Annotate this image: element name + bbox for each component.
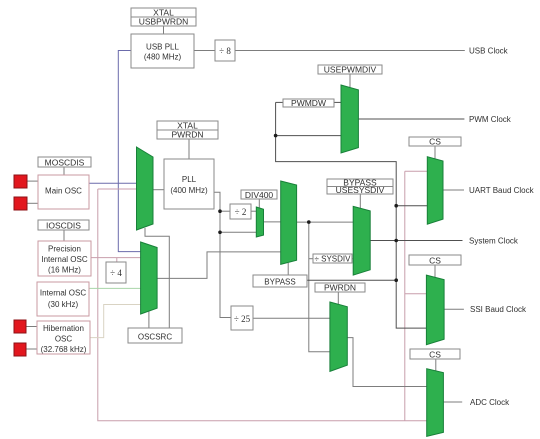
svg-text:USB PLL: USB PLL bbox=[146, 43, 179, 52]
svg-text:IOSCDIS: IOSCDIS bbox=[46, 220, 81, 230]
svg-text:÷ 4: ÷ 4 bbox=[110, 268, 122, 278]
svg-text:USBPWRDN: USBPWRDN bbox=[139, 17, 189, 27]
svg-text:÷ 2: ÷ 2 bbox=[235, 207, 247, 217]
svg-text:Main OSC: Main OSC bbox=[45, 187, 82, 196]
svg-text:PWMDW: PWMDW bbox=[291, 98, 326, 108]
svg-text:CS: CS bbox=[429, 349, 441, 359]
svg-text:÷ SYSDIV: ÷ SYSDIV bbox=[315, 255, 352, 264]
svg-text:DIV400: DIV400 bbox=[245, 190, 274, 200]
svg-text:Hibernation: Hibernation bbox=[43, 324, 84, 333]
svg-text:ADC Clock: ADC Clock bbox=[470, 398, 510, 407]
svg-text:÷ 25: ÷ 25 bbox=[234, 314, 251, 324]
svg-text:PWM Clock: PWM Clock bbox=[469, 115, 512, 124]
svg-text:OSCSRC: OSCSRC bbox=[138, 333, 172, 342]
svg-text:(16 MHz): (16 MHz) bbox=[48, 266, 81, 275]
svg-text:UART Baud Clock: UART Baud Clock bbox=[469, 186, 535, 195]
svg-text:(400 MHz): (400 MHz) bbox=[170, 186, 208, 195]
svg-text:PWRDN: PWRDN bbox=[171, 130, 203, 140]
svg-text:÷ 8: ÷ 8 bbox=[219, 46, 231, 56]
svg-text:SSI Baud Clock: SSI Baud Clock bbox=[470, 305, 527, 314]
svg-text:PWRDN: PWRDN bbox=[324, 283, 356, 293]
svg-text:USEPWMDIV: USEPWMDIV bbox=[324, 65, 377, 75]
svg-text:CS: CS bbox=[429, 137, 441, 147]
svg-text:CS: CS bbox=[429, 255, 441, 265]
svg-text:USB Clock: USB Clock bbox=[469, 46, 509, 55]
svg-text:OSC: OSC bbox=[55, 335, 73, 344]
svg-text:Precision: Precision bbox=[48, 245, 81, 254]
svg-text:MOSCDIS: MOSCDIS bbox=[45, 157, 85, 167]
svg-text:Internal OSC: Internal OSC bbox=[40, 289, 86, 298]
svg-text:USESYSDIV: USESYSDIV bbox=[336, 185, 385, 195]
svg-text:System Clock: System Clock bbox=[469, 236, 519, 245]
svg-text:Internal OSC: Internal OSC bbox=[41, 255, 87, 264]
svg-text:BYPASS: BYPASS bbox=[264, 278, 295, 287]
svg-text:(32.768 kHz): (32.768 kHz) bbox=[41, 345, 87, 354]
svg-text:PLL: PLL bbox=[182, 175, 197, 184]
svg-text:(480 MHz): (480 MHz) bbox=[144, 53, 182, 62]
svg-text:(30 kHz): (30 kHz) bbox=[48, 300, 79, 309]
